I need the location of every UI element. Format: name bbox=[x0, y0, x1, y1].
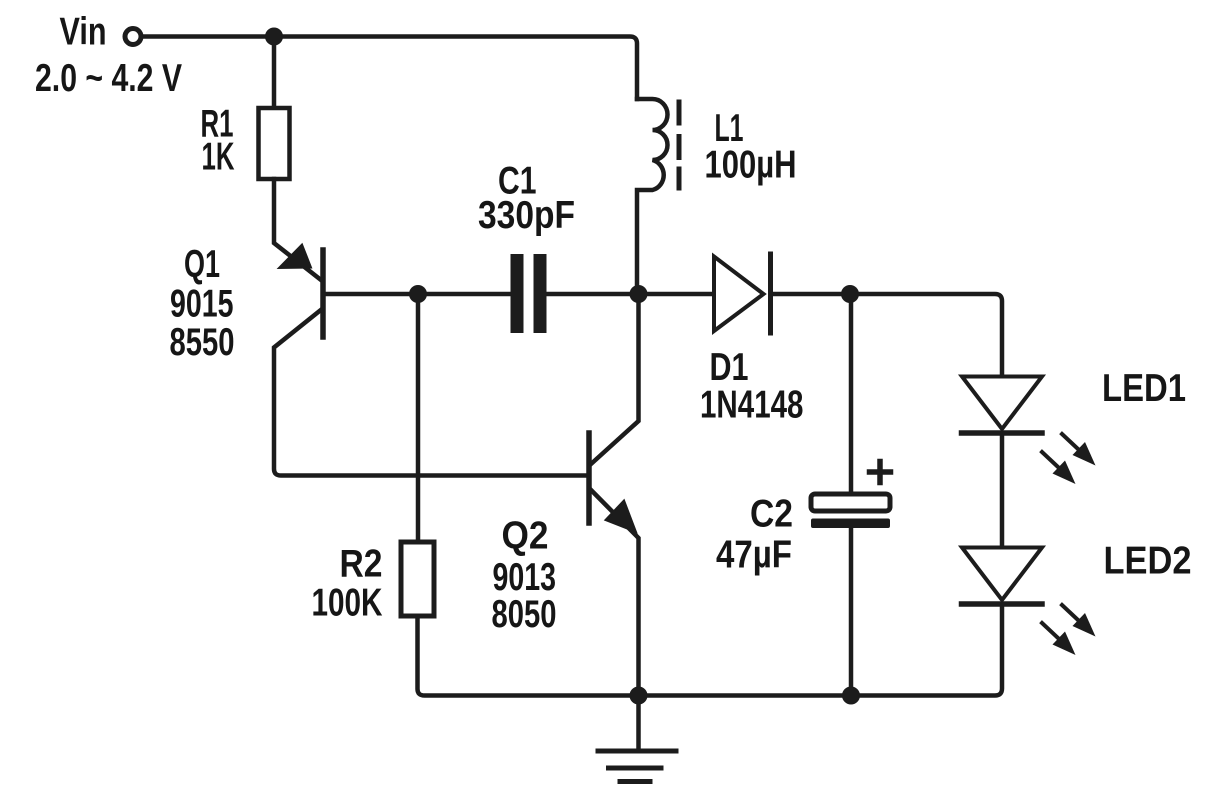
resistor R2 bbox=[401, 542, 434, 616]
transistor Q1 emitter arrow bbox=[279, 245, 311, 269]
svg-text:8550: 8550 bbox=[170, 321, 235, 364]
LED LED1 triangle bbox=[962, 377, 1042, 430]
wire R2 to ground rail bbox=[418, 604, 1003, 696]
LED LED2 triangle bbox=[962, 548, 1042, 601]
diode D1 triangle bbox=[714, 257, 764, 332]
svg-text:100K: 100K bbox=[312, 582, 383, 625]
wire ground stub bbox=[636, 696, 641, 752]
wire Q1 base to node A bbox=[323, 292, 418, 297]
wire node B to D1 bbox=[639, 292, 715, 297]
svg-text:Q1: Q1 bbox=[184, 243, 220, 286]
transistor Q1 collector bbox=[274, 309, 587, 476]
inductor L1 core dashes bbox=[677, 102, 682, 188]
node C2 rail junction bbox=[842, 687, 860, 705]
svg-text:2.0 ~ 4.2 V: 2.0 ~ 4.2 V bbox=[35, 57, 182, 100]
capacitor C2 plus sign bbox=[870, 462, 891, 483]
capacitor C2 positive lead bbox=[849, 294, 854, 494]
wire junction to R1 bbox=[272, 37, 277, 109]
svg-text:LED2: LED2 bbox=[1104, 540, 1192, 583]
svg-text:1K: 1K bbox=[202, 136, 235, 179]
wire node C to LED1 bbox=[850, 294, 1002, 378]
svg-text:Q2: Q2 bbox=[502, 515, 549, 558]
inductor L1 bbox=[637, 99, 668, 294]
wire D1 to node C bbox=[771, 292, 851, 297]
LED LED1 cathode bar bbox=[962, 430, 1043, 436]
svg-text:9015: 9015 bbox=[170, 283, 234, 326]
wire LED1 to LED2 bbox=[1000, 433, 1005, 548]
wire R1 to Q1 emitter bbox=[274, 179, 321, 280]
svg-text:LED1: LED1 bbox=[1102, 367, 1186, 410]
capacitor C2 negative lead bbox=[849, 528, 854, 696]
LED LED2 cathode bar bbox=[962, 601, 1043, 607]
svg-text:8050: 8050 bbox=[492, 593, 557, 636]
wire C1 to node B bbox=[547, 292, 639, 297]
node A junction dot bbox=[409, 285, 427, 303]
node ground rail junction bbox=[630, 687, 648, 705]
junction top node bbox=[265, 28, 283, 46]
ground symbol bbox=[598, 751, 676, 782]
svg-text:1N4148: 1N4148 bbox=[700, 383, 804, 426]
capacitor C2 bottom plate bbox=[811, 519, 890, 529]
svg-text:Vin: Vin bbox=[60, 11, 107, 54]
capacitor C1 bbox=[511, 254, 524, 333]
svg-text:100µH: 100µH bbox=[705, 144, 797, 187]
transistor Q2 collector bbox=[591, 294, 639, 464]
LED LED2 light arrows bbox=[1042, 605, 1096, 655]
resistor R1 bbox=[259, 108, 290, 179]
wire top rail Vin to L1 bbox=[143, 37, 637, 100]
wire node A to C1 bbox=[418, 292, 511, 297]
svg-text:47µF: 47µF bbox=[716, 534, 792, 577]
svg-text:330pF: 330pF bbox=[478, 194, 575, 237]
node B junction dot bbox=[630, 285, 648, 303]
transistor Q2 emitter bbox=[591, 490, 639, 696]
transistor Q2 base bar bbox=[586, 433, 592, 523]
svg-text:C2: C2 bbox=[750, 493, 793, 536]
wire node A down to R2 bbox=[416, 294, 421, 542]
node C junction dot bbox=[841, 285, 859, 303]
LED LED1 light arrows bbox=[1042, 434, 1096, 484]
transistor Q2 emitter arrow bbox=[606, 501, 637, 533]
svg-text:R2: R2 bbox=[340, 543, 383, 586]
transistor Q1 base bar bbox=[320, 250, 326, 337]
node Vin terminal bbox=[125, 29, 141, 45]
capacitor C2 top plate bbox=[811, 494, 890, 511]
diode D1 cathode bar bbox=[768, 254, 773, 333]
